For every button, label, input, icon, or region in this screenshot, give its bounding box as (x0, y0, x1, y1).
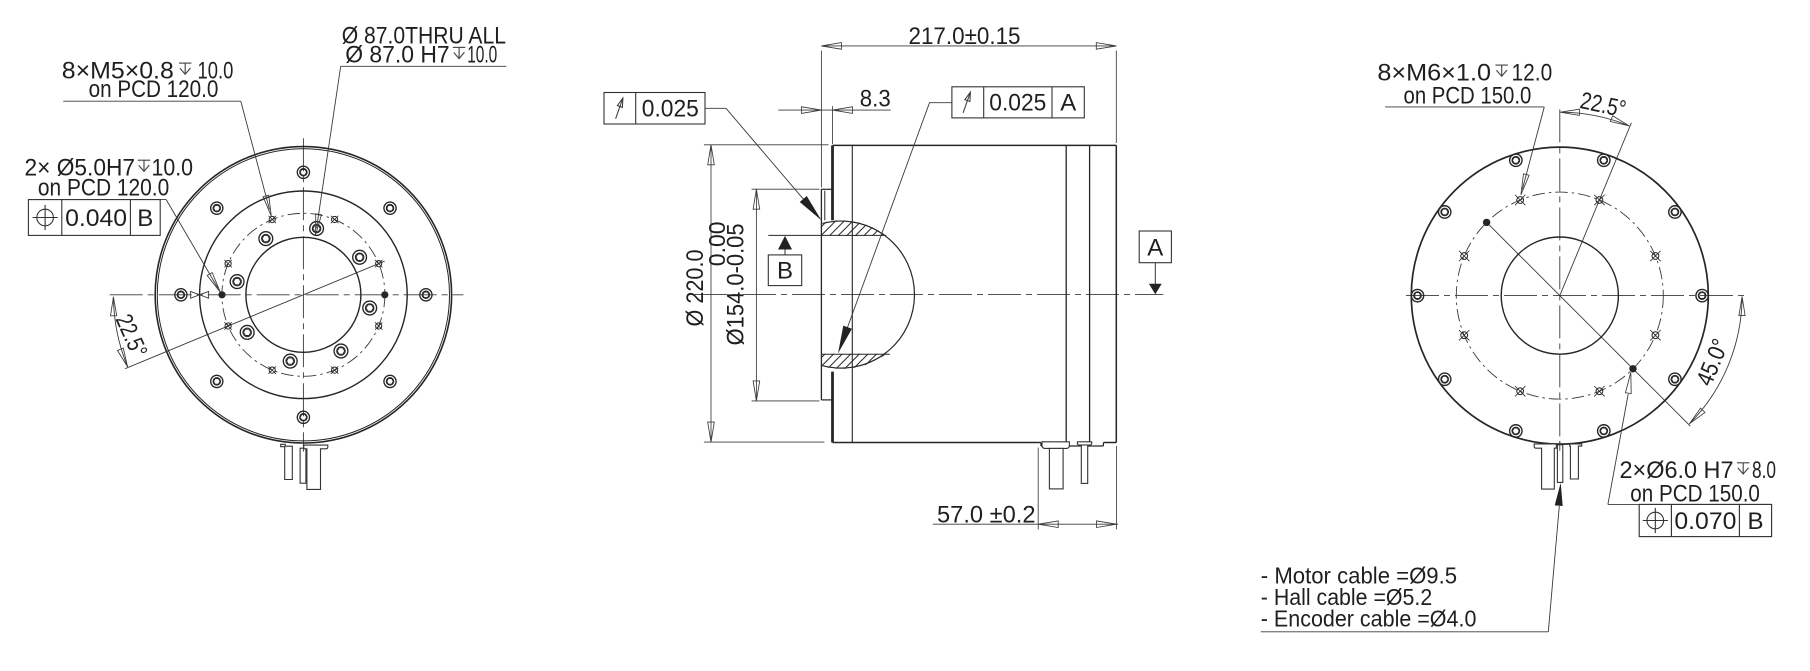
left view inner socket screw at 168.75 deg (230, 275, 244, 289)
left view outer socket screw at 45 deg (384, 202, 396, 214)
middle view FCF leader left (705, 108, 820, 218)
middle view spigot lip line (824, 191, 826, 221)
svg-text:- Encoder cable =Ø4.0: - Encoder cable =Ø4.0 (1261, 605, 1477, 631)
right view M6 thread hole at 112.5 deg (1515, 195, 1525, 205)
right view socket screw at 0 deg (1696, 289, 1708, 301)
left view outer circle OD220 (155, 147, 451, 443)
middle view dim line 57 (933, 523, 1118, 525)
left view leader line 8xM5 (241, 101, 270, 209)
right view M6 thread hole at 337.5 deg (1650, 330, 1660, 340)
right view M6 thread hole at 247.5 deg (1515, 386, 1525, 396)
left view position symbol in FCF (33, 205, 58, 230)
left view M5 thread hole at 292.5 deg (331, 366, 339, 373)
middle view dim line D154 (755, 189, 757, 401)
right view M6 thread hole at 292.5 deg (1594, 386, 1604, 396)
right view outer circle OD220 (1411, 147, 1708, 444)
middle view hatched section band bottom (808, 347, 927, 371)
left view 22.5 deg construction line (125, 261, 385, 369)
right view socket screw at 180 deg (1411, 289, 1423, 301)
right view dowel pin hole at 135 deg (1483, 219, 1490, 226)
middle view housing front face lower (thick) (831, 372, 834, 443)
svg-text:8.3: 8.3 (860, 85, 891, 112)
middle view bottom recess step right (1102, 443, 1104, 447)
left view M5 thread hole at 22.5 deg (375, 260, 382, 268)
right view cable stub middle (1557, 445, 1562, 483)
left view leader underline 2xD5 (28, 199, 166, 201)
right view socket screw at 288 deg (1598, 425, 1610, 437)
middle view dim line D220 (710, 145, 712, 442)
cable note underline (1261, 631, 1549, 633)
middle view rotor spigot face D154 (820, 189, 822, 400)
left view M5 thread hole at 157.5 deg (224, 260, 231, 268)
left view outer socket screw at 135 deg (211, 202, 223, 214)
left view M5 thread hole at 247.5 deg (268, 366, 276, 373)
right view PCD150 bolt circle (1456, 192, 1663, 399)
svg-text:on PCD 150.0: on PCD 150.0 (1630, 480, 1760, 507)
svg-text:57.0 ±0.2: 57.0 ±0.2 (937, 502, 1036, 529)
svg-text:0.040: 0.040 (65, 205, 127, 232)
left view 22.5 deg dimension arc (113, 297, 127, 367)
middle view stator ring bottom line (821, 353, 890, 355)
middle view ext line right 217 (1115, 51, 1117, 144)
right view position symbol in FCF (1643, 508, 1668, 533)
left view leader line D87 (317, 66, 341, 228)
left view leader underline D87 (341, 65, 507, 67)
middle view ext line 57 right (1116, 446, 1118, 530)
left view: front face of motor (25, 23, 507, 490)
middle view: side section of motor (604, 23, 1171, 530)
left view bowtie arrow pair on D154 circle (191, 291, 200, 298)
right view 45 deg construction line (1486, 222, 1690, 426)
left view cable stub middle (300, 448, 306, 483)
svg-text:10.0: 10.0 (467, 42, 497, 69)
middle view ext line D154 top (752, 188, 820, 190)
svg-text:B: B (777, 258, 793, 285)
left view outer socket screw at 90 deg (297, 166, 309, 178)
left view cable stub small left (281, 444, 293, 479)
right view socket screw at 72 deg (1598, 154, 1610, 166)
middle view dim line 8.3 (778, 109, 890, 111)
middle view bottom recess surface (1041, 445, 1104, 447)
right view 45 deg dimension arc (1689, 297, 1742, 424)
svg-text:Ø 87.0 H7: Ø 87.0 H7 (345, 42, 450, 69)
left view leader underline 8xM5 (63, 100, 241, 102)
middle view body right face (1115, 145, 1117, 442)
right view socket screw at 36 deg (1669, 206, 1681, 218)
left view M5 thread hole at 112.5 deg (268, 216, 276, 223)
left view bore circle D87 (246, 237, 361, 352)
middle view runout symbol right (963, 92, 970, 113)
left view outer circle inner rim (157, 149, 449, 441)
right view M6 thread hole at 202.5 deg (1459, 330, 1469, 340)
right view leader line 8xM6 (1522, 107, 1544, 190)
left view horizontal centerline (110, 294, 464, 296)
cable note leader line (1548, 506, 1559, 632)
right view horizontal centerline (1406, 295, 1747, 297)
right view 67.5 deg construction line (1560, 123, 1632, 296)
left view cable stub wide right (304, 445, 328, 489)
svg-text:0.070: 0.070 (1674, 508, 1736, 535)
middle view runout symbol left (616, 98, 623, 119)
left view dowel pin hole at 0 deg (381, 291, 388, 298)
right view socket screw at 324 deg (1669, 373, 1681, 385)
middle view FCF leader right (840, 103, 952, 349)
middle view bottom recess step left (1040, 443, 1042, 447)
middle view ext line D154 bottom (752, 400, 820, 402)
left view leader line 2xD5 (166, 200, 218, 289)
cable notes block (1261, 483, 1563, 632)
middle view spigot step bottom edge (821, 399, 832, 401)
middle view housing front face upper (thick) (831, 145, 834, 220)
middle view flange joint line (851, 145, 853, 442)
svg-text:Ø154.0-0.05: Ø154.0-0.05 (723, 223, 750, 345)
left view inner socket screw at 258.75 deg (283, 354, 297, 368)
left view depth symbol M5 (179, 63, 191, 74)
svg-text:217.0±0.15: 217.0±0.15 (909, 23, 1021, 50)
right view cable stub right (1570, 444, 1582, 479)
left view dowel pin hole at 180 deg (218, 291, 225, 298)
middle view ext line 57 left (1037, 448, 1039, 530)
left view spigot circle D154 (200, 191, 408, 399)
right view M6 thread hole at 22.5 deg (1650, 251, 1660, 261)
right view leader underline 2xD6 (1608, 503, 1772, 505)
middle view FCF circular runout 0.025 A (952, 87, 1084, 118)
middle view body top edge (833, 144, 1117, 146)
left view M5 thread hole at 337.5 deg (375, 322, 382, 330)
middle view datum feature B (778, 236, 792, 250)
svg-text:0.025: 0.025 (989, 89, 1046, 116)
middle view spigot step top edge (821, 188, 832, 190)
svg-text:A: A (1060, 89, 1076, 116)
left view inner socket screw at 33.75 deg (353, 250, 367, 264)
left view outer socket screw at 180 deg (175, 289, 187, 301)
middle view datum feature A (1139, 231, 1171, 263)
right view M6 thread hole at 67.5 deg (1594, 195, 1604, 205)
middle view FCF circular runout 0.025 (604, 93, 705, 125)
middle view dim line 217 (821, 45, 1116, 47)
left view inner socket screw at 123.75 deg (259, 232, 273, 246)
middle view ext line 8.3 right (832, 106, 834, 144)
left view inner socket screw at 78.75 deg (310, 222, 324, 236)
svg-text:B: B (1747, 508, 1763, 535)
middle view rotor ball arc (822, 221, 914, 368)
middle view body bottom edge left part (833, 442, 1041, 444)
middle view rear cover joint line 2 (1089, 145, 1091, 442)
right view leader underline 8xM6 (1385, 106, 1544, 108)
right view socket screw at 144 deg (1438, 206, 1450, 218)
middle view encoder cable gland (1077, 442, 1091, 484)
right view cable stub wide (1534, 444, 1556, 489)
middle view body bottom edge right part (1103, 442, 1116, 444)
svg-text:A: A (1147, 235, 1163, 262)
svg-text:on PCD 120.0: on PCD 120.0 (89, 76, 219, 103)
middle view rear cover joint line 1 (1065, 145, 1067, 442)
left view outer socket screw at 0 deg (420, 289, 432, 301)
middle view horizontal centerline (694, 294, 1163, 296)
svg-text:B: B (137, 205, 153, 232)
right view vertical centerline (1559, 109, 1561, 450)
left view inner socket screw at 303.75 deg (334, 344, 348, 358)
left view centerline over cable stub (302, 441, 304, 452)
left view M5 thread hole at 202.5 deg (224, 322, 231, 330)
left view vertical centerline (302, 138, 304, 457)
left view inner socket screw at 213.75 deg (240, 325, 254, 339)
left view outer socket screw at 270 deg (297, 411, 309, 423)
middle view stator ring top line (datum B line) (768, 234, 886, 236)
middle view ext line left (217 and 8.3) (820, 51, 822, 188)
svg-text:on PCD 120.0: on PCD 120.0 (38, 174, 169, 201)
left view feature control frame 0.040 B (28, 200, 160, 236)
right view leader line 2xD6 (1608, 394, 1628, 504)
middle view motor cable gland (1042, 442, 1069, 489)
right view dowel pin hole at 315 deg (1629, 365, 1636, 372)
right view feature control frame 0.070 B (1639, 504, 1771, 536)
right view: rear face of motor (1377, 59, 1776, 536)
left view PCD120 bolt circle (222, 213, 385, 376)
middle view ext line D220 bottom (704, 441, 825, 443)
right view M6 thread hole at 157.5 deg (1459, 251, 1469, 261)
middle view ext line D220 top (704, 144, 829, 146)
right view centerline over cable stub (1559, 441, 1561, 451)
right view socket screw at 252 deg (1510, 425, 1522, 437)
right view socket screw at 216 deg (1438, 373, 1450, 385)
left view M5 thread hole at 67.5 deg (331, 216, 339, 223)
left view outer socket screw at 225 deg (211, 375, 223, 387)
right view socket screw at 108 deg (1510, 154, 1522, 166)
svg-text:on PCD 150.0: on PCD 150.0 (1404, 83, 1532, 110)
svg-text:0.025: 0.025 (642, 96, 699, 123)
left view inner socket screw at 348.75 deg (363, 301, 377, 315)
right view 22.5 deg dimension arc (1560, 112, 1629, 126)
right view bore circle D87 (1501, 237, 1618, 354)
left view outer socket screw at 315 deg (384, 375, 396, 387)
